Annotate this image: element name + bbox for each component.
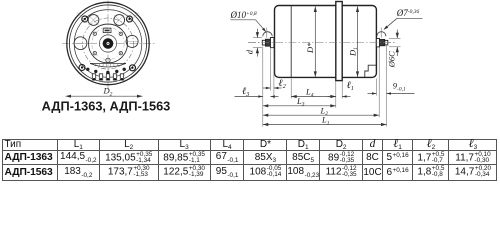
svg-text:Ø10+0,8: Ø10+0,8	[230, 10, 257, 20]
svg-text:Ø7-0,36: Ø7-0,36	[396, 8, 420, 18]
svg-text:ℓ2: ℓ2	[278, 78, 285, 90]
svg-text:D2: D2	[103, 86, 113, 98]
svg-text:D*: D*	[305, 42, 315, 54]
svg-text:ℓ3: ℓ3	[242, 86, 249, 98]
svg-text:ℓ1: ℓ1	[347, 80, 354, 92]
svg-text:9-0,1: 9-0,1	[393, 81, 406, 93]
svg-text:Ø6С: Ø6С	[387, 51, 397, 68]
svg-text:АДП-1363, АДП-1563: АДП-1363, АДП-1563	[42, 99, 171, 114]
svg-text:d: d	[244, 49, 254, 54]
